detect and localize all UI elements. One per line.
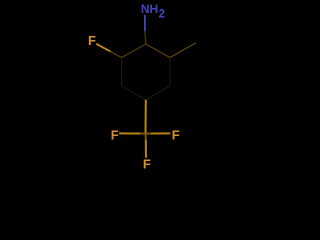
- methyl bond: [170, 43, 196, 58]
- benzene ring top-left edge: [122, 44, 146, 58]
- amine N-C bond blue half: [144, 15, 146, 31]
- benzene ring bottom-right edge: [146, 86, 170, 100]
- CF3 right bond bright half: [151, 132, 170, 134]
- benzene ring left edge: [121, 58, 123, 86]
- CF3 down bond bright half: [145, 140, 147, 158]
- benzene ring top-right edge: [146, 44, 170, 58]
- amine N-C bond carbon half: [144, 31, 147, 44]
- fluorine ring bond carbon half: [111, 52, 122, 58]
- fluorine ring bond bright half: [96, 44, 110, 52]
- benzene ring right edge: [169, 58, 171, 86]
- CF3 right bond carbon half: [146, 133, 152, 135]
- svg-text:F: F: [143, 156, 151, 171]
- svg-text:F: F: [172, 127, 180, 142]
- svg-text:2: 2: [159, 9, 165, 21]
- benzene ring bottom-left edge: [122, 86, 146, 100]
- svg-text:F: F: [88, 33, 96, 48]
- svg-text:F: F: [111, 127, 119, 142]
- svg-text:NH: NH: [141, 2, 158, 16]
- CF3 down bond carbon half: [145, 134, 147, 140]
- CF3 left bond bright half: [119, 132, 140, 134]
- CF3 left bond carbon half: [140, 133, 146, 135]
- CF3 bond ring to C: [145, 100, 147, 134]
